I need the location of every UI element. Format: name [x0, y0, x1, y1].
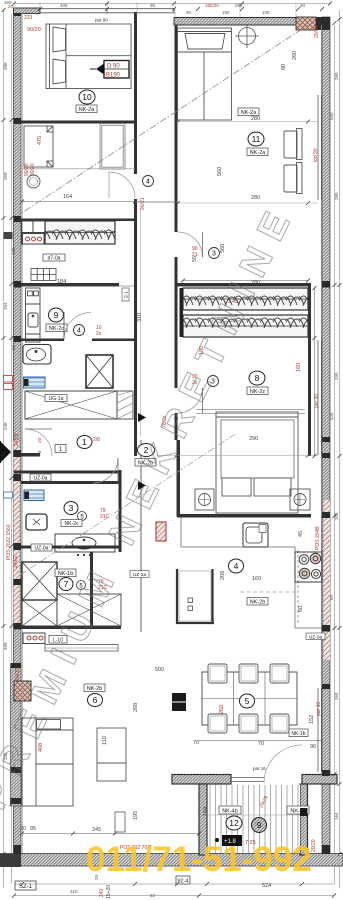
bottom-left corner block	[0, 854, 21, 867]
X closet hatched end	[117, 391, 133, 419]
terrace deck	[208, 785, 300, 853]
wall corridor right vertical	[175, 25, 178, 232]
svg-text:5: 5	[245, 696, 250, 706]
room8 dim line horizontal	[181, 279, 310, 283]
room11 dim line y202	[177, 202, 318, 204]
top dim texts	[4, 0, 306, 15]
X closet hall	[25, 391, 117, 419]
kitchen island	[176, 569, 214, 624]
svg-text:475: 475	[37, 136, 43, 145]
corridor door top tag	[140, 176, 154, 211]
section line A	[14, 25, 308, 218]
svg-text:NK-1b: NK-1b	[291, 731, 305, 737]
wall bath3 right	[119, 470, 122, 552]
svg-text:70: 70	[193, 740, 199, 746]
svg-text:268: 268	[334, 692, 339, 700]
bath circle 3	[61, 502, 110, 528]
outer wall left	[14, 10, 22, 856]
kitchen4 hob	[295, 552, 322, 582]
svg-text:2x: 2x	[96, 331, 102, 337]
wc lower cell	[22, 600, 57, 626]
svg-text:NK-2c: NK-2c	[49, 326, 65, 332]
svg-text:160/20: 160/20	[205, 3, 219, 8]
living6 label	[84, 684, 105, 707]
vanity bath	[55, 534, 115, 556]
svg-text:6: 6	[93, 695, 98, 705]
room8 bed cushions	[222, 478, 291, 496]
svg-text:560: 560	[217, 167, 223, 176]
svg-text:D 90: D 90	[107, 64, 120, 70]
room 10 bed pillows	[53, 27, 66, 84]
hall closet double rect	[100, 124, 125, 170]
dining labels dims	[193, 715, 316, 750]
svg-text:9: 9	[54, 310, 59, 320]
bottom label 92-4	[176, 876, 190, 884]
svg-text:POS 204B: POS 204B	[315, 526, 321, 550]
svg-text:80: 80	[281, 64, 287, 70]
kitchen4 circle label	[229, 559, 269, 606]
top-right brown block	[296, 17, 316, 30]
svg-text:240/2: 240/2	[14, 433, 20, 446]
washer2 rounded	[26, 514, 47, 530]
wall room8 bottom	[177, 514, 311, 518]
wall wc7 right	[90, 552, 93, 628]
svg-text:500: 500	[155, 667, 164, 673]
right dim ticks	[333, 17, 342, 856]
door 3a tag	[192, 246, 220, 259]
svg-text:310: 310	[70, 889, 78, 894]
svg-text:Z-1: Z-1	[124, 291, 129, 298]
svg-text:160: 160	[222, 10, 230, 15]
wall hall top	[14, 219, 137, 222]
svg-text:240: 240	[3, 422, 8, 430]
svg-text:3: 3	[69, 503, 74, 513]
svg-text:011/71-51-992: 011/71-51-992	[86, 840, 312, 879]
svg-text:3: 3	[212, 251, 216, 258]
terrace pier black block	[300, 808, 308, 816]
svg-text:240/2: 240/2	[13, 555, 19, 568]
living left boundary line	[140, 440, 142, 632]
bottom dim ticks	[12, 882, 336, 898]
svg-text:268: 268	[133, 703, 139, 712]
door tag 4 kitchen	[74, 325, 102, 338]
svg-text:30: 30	[186, 10, 192, 15]
svg-text:184: 184	[3, 302, 8, 310]
svg-text:260: 260	[292, 51, 298, 60]
right dim texts	[329, 72, 339, 820]
big black triangle left	[0, 441, 11, 463]
terrace top wall right seg	[302, 775, 337, 785]
svg-text:4: 4	[77, 328, 81, 335]
rotated label at kitchen door	[122, 288, 129, 301]
svg-text:15+20: 15+20	[106, 885, 112, 899]
label UG-1a	[45, 395, 67, 402]
svg-text:120: 120	[11, 247, 16, 255]
svg-text:45: 45	[298, 531, 304, 537]
svg-text:11: 11	[252, 134, 261, 144]
top window band	[40, 8, 174, 14]
coat closet shelf box	[22, 221, 46, 244]
svg-text:NK-2a: NK-2a	[79, 107, 96, 113]
svg-text:310: 310	[137, 313, 143, 322]
svg-text:260: 260	[3, 172, 8, 180]
dining table	[202, 672, 297, 725]
svg-text:20/20: 20/20	[314, 25, 320, 38]
svg-text:55: 55	[11, 344, 16, 350]
room 11 bed	[178, 28, 232, 120]
svg-text:20: 20	[300, 3, 306, 8]
hall dim 164	[20, 194, 137, 204]
svg-text:UG-1a: UG-1a	[49, 396, 64, 402]
room8 dims	[192, 256, 302, 442]
label UZ-2a living	[130, 571, 149, 578]
svg-text:223: 223	[24, 15, 33, 21]
svg-text:390: 390	[3, 62, 8, 70]
shelf strip	[45, 645, 118, 652]
svg-text:290: 290	[334, 372, 339, 380]
room 11 circle label	[238, 108, 268, 156]
room 10 circle label	[76, 90, 97, 113]
room8 nightstand right	[290, 489, 310, 510]
top dim ticks	[12, 2, 332, 12]
wall kitchen9 top	[14, 283, 119, 287]
svg-text:UZ-0a: UZ-0a	[309, 635, 323, 641]
svg-text:160: 160	[296, 363, 302, 372]
svg-text:12: 12	[229, 818, 239, 828]
svg-text:NK-2z: NK-2z	[250, 389, 266, 395]
svg-text:lod 90: lod 90	[313, 148, 319, 162]
shoe box red dots lower	[23, 633, 67, 644]
terrace right pier	[300, 784, 308, 855]
room8 wardrobe band row2	[183, 315, 308, 337]
terrace top wall left seg	[172, 775, 231, 785]
label UZ-0a kitchen	[306, 633, 325, 640]
svg-text:2/8: 2/8	[93, 437, 100, 443]
bottom wall band	[0, 854, 343, 867]
svg-text:par 16: par 16	[253, 766, 266, 771]
corridor entry arrows	[138, 413, 146, 422]
kitchen tall column	[26, 288, 41, 342]
dim line bottom living	[22, 833, 199, 835]
wall hall thin line	[135, 201, 177, 203]
dim line dining	[199, 740, 322, 742]
svg-text:184: 184	[57, 279, 66, 285]
bottom label SZ-1	[15, 881, 36, 890]
svg-text:245: 245	[92, 827, 101, 833]
bath door arc	[93, 458, 118, 483]
room 11 seats	[284, 129, 302, 194]
room 11 dims	[217, 51, 298, 201]
svg-text:NK-4b: NK-4b	[222, 809, 238, 815]
dining circle 5	[219, 694, 255, 714]
wall room10 bottom	[14, 121, 137, 124]
svg-text:d7-0a: d7-0a	[48, 256, 61, 262]
svg-text:90/20: 90/20	[30, 163, 36, 176]
room 11 ceiling light	[235, 24, 259, 48]
pier brown	[14, 681, 31, 701]
bottom texts	[70, 874, 156, 898]
wall kitchen9 bottom	[14, 339, 64, 342]
svg-text:55: 55	[192, 256, 198, 262]
terrace door arc	[264, 745, 302, 783]
wc circle 7	[55, 569, 108, 591]
loggia window room5	[318, 688, 322, 772]
kitchen4 dims	[220, 531, 304, 612]
svg-text:20: 20	[37, 437, 43, 443]
svg-text:10: 10	[82, 92, 92, 102]
svg-text:par 90: par 90	[95, 18, 108, 23]
dashed counter line	[240, 591, 295, 593]
terrace window band	[231, 778, 264, 782]
svg-text:280: 280	[251, 116, 260, 122]
svg-text:NK-2b: NK-2b	[250, 600, 266, 606]
top wall band room11	[174, 18, 322, 26]
left wall blue tag	[4, 492, 13, 498]
svg-text:UZ-2a: UZ-2a	[133, 572, 147, 578]
svg-text:UZ-0a: UZ-0a	[35, 546, 49, 552]
svg-text:B190: B190	[106, 73, 121, 79]
svg-text:20/20: 20/20	[311, 839, 317, 852]
top guide lines	[40, 2, 296, 17]
svg-text:7: 7	[64, 579, 69, 589]
svg-text:70: 70	[37, 450, 43, 456]
top wall chunk left	[14, 8, 41, 14]
section line B	[20, 433, 237, 575]
label UZ-0a bottom	[31, 544, 52, 551]
hall1 door arc	[25, 429, 52, 456]
svg-text:160: 160	[252, 576, 261, 582]
small column rect	[115, 812, 125, 832]
stove red dots box	[23, 234, 45, 245]
svg-text:par 90: par 90	[314, 394, 320, 408]
chairs bottom row	[208, 714, 289, 733]
svg-text:430: 430	[329, 412, 334, 420]
room8 nightstand left	[195, 489, 214, 510]
corridor door top arc	[109, 172, 135, 198]
wall room8 right	[308, 286, 311, 456]
door 3a arc	[178, 232, 203, 257]
svg-text:152: 152	[309, 715, 315, 724]
room8 bed	[196, 410, 305, 514]
kitchen4 sink	[243, 523, 268, 547]
bottom dim line 2	[14, 883, 334, 885]
svg-text:92-4: 92-4	[177, 879, 188, 885]
outer wall left lower segment hatch	[11, 666, 22, 806]
svg-text:268: 268	[219, 705, 225, 714]
room 11 dim line y121	[177, 121, 318, 123]
room 10 bed	[46, 24, 131, 89]
svg-text:195: 195	[133, 811, 139, 820]
svg-text:164: 164	[63, 194, 72, 200]
room 10 tv box with red label	[90, 61, 129, 79]
left wall red tag boxes	[4, 376, 13, 390]
label UZ-0a top	[30, 474, 51, 481]
svg-text:92: 92	[150, 893, 156, 898]
loggia window room8	[318, 340, 322, 455]
door 3b arc	[178, 388, 203, 413]
svg-text:9: 9	[257, 821, 262, 830]
svg-text:90: 90	[310, 744, 316, 750]
svg-text:368: 368	[3, 642, 8, 650]
room8 dim line vertical	[313, 286, 317, 458]
left dim texts	[3, 62, 16, 760]
wardrobe end bar	[180, 288, 184, 337]
loggia window room11	[318, 95, 322, 200]
left wall dark tag	[4, 232, 13, 239]
svg-text:208: 208	[220, 571, 226, 580]
svg-text:20: 20	[20, 826, 26, 832]
X dresser hall2	[57, 594, 121, 626]
shaft with X	[86, 355, 113, 388]
svg-text:1: 1	[82, 437, 87, 447]
svg-text:560: 560	[220, 244, 226, 253]
svg-text:240: 240	[99, 888, 105, 897]
wc shower X	[22, 562, 57, 600]
coat closet hanger area	[45, 221, 115, 244]
svg-text:280: 280	[334, 192, 339, 200]
svg-text:NK-2b: NK-2b	[87, 686, 103, 692]
corridor circle 1	[55, 436, 100, 454]
shoe grid box	[31, 269, 56, 281]
outer wall left red insulation segment	[14, 440, 20, 630]
svg-text:405: 405	[60, 3, 68, 8]
coffee table	[97, 728, 126, 781]
living circle 2	[135, 444, 156, 467]
svg-text:164: 164	[334, 812, 339, 820]
svg-text:NK-2a: NK-2a	[250, 150, 267, 156]
living6 dims	[20, 667, 164, 833]
terrace level box	[215, 835, 256, 846]
right wall junction stubs	[322, 17, 330, 854]
svg-text:260: 260	[334, 72, 339, 80]
kitchen4 counter top	[181, 518, 295, 548]
hall shelf line	[22, 168, 135, 170]
wall bath3 top upper line	[14, 471, 121, 474]
svg-text:4: 4	[234, 561, 239, 571]
svg-text:290: 290	[249, 436, 258, 442]
svg-text:560: 560	[329, 112, 334, 120]
kitchen4 fridge red tag	[156, 522, 166, 541]
top-right black block	[316, 17, 323, 30]
left wall junction stubs	[11, 13, 22, 854]
corridor dim line	[140, 208, 142, 436]
room8 wardrobe band row1	[183, 288, 308, 310]
svg-text:4: 4	[146, 179, 150, 186]
svg-text:90/20: 90/20	[27, 27, 41, 33]
wall bath3 bottom	[21, 546, 121, 549]
svg-text:95: 95	[30, 826, 36, 832]
door arc kitchen9	[64, 313, 91, 340]
kitchen4 right counter	[295, 547, 322, 628]
washer blue bath	[24, 490, 44, 501]
wall wc7 bottom	[21, 626, 121, 630]
wall bath3 top lower line	[21, 481, 121, 484]
black boxes left of dining	[172, 693, 186, 702]
svg-text:NK-2c: NK-2c	[65, 521, 79, 527]
room8 circle label	[247, 371, 268, 395]
svg-text:NK-1b: NK-1b	[58, 571, 74, 577]
door 3b tag	[192, 374, 219, 387]
wall hall1 bottom	[14, 453, 40, 457]
kitchen9 circle label	[46, 308, 67, 332]
outer wall right	[322, 17, 330, 857]
svg-text:60: 60	[298, 606, 304, 612]
svg-text:105: 105	[262, 10, 270, 15]
svg-text:280: 280	[251, 195, 260, 201]
chairs top row	[208, 664, 289, 683]
living top dim line	[157, 455, 318, 457]
wall room8 left	[177, 440, 181, 517]
svg-text:90/21: 90/21	[140, 197, 146, 210]
washbasin hall	[23, 345, 51, 365]
svg-text:8: 8	[255, 373, 260, 383]
label d7-0a	[43, 254, 65, 261]
svg-text:90: 90	[150, 3, 156, 8]
couch	[22, 718, 73, 806]
svg-text:UZ-0a: UZ-0a	[34, 476, 48, 482]
room 11 pillow	[185, 34, 225, 50]
svg-text:60: 60	[329, 594, 334, 600]
svg-text:54/22: 54/22	[15, 667, 21, 680]
terrace left wall	[199, 784, 207, 855]
svg-text:164: 164	[203, 807, 209, 816]
inner face line left wall	[21, 13, 23, 853]
svg-text:par 10: par 10	[316, 702, 322, 716]
boiler blue box	[24, 377, 46, 388]
left dim ticks	[2, 8, 14, 856]
hall dresser	[24, 126, 53, 167]
chair inner marks	[210, 666, 287, 731]
hall stool	[27, 175, 40, 188]
wall corridor left vertical	[134, 12, 137, 174]
terrace labels	[203, 795, 309, 833]
svg-text:70: 70	[258, 741, 264, 747]
svg-text:110: 110	[102, 736, 108, 745]
outer wall right red segment	[324, 500, 331, 660]
svg-text:POS 2022 1560: POS 2022 1560	[6, 524, 12, 560]
inner face line right wall	[320, 25, 322, 770]
